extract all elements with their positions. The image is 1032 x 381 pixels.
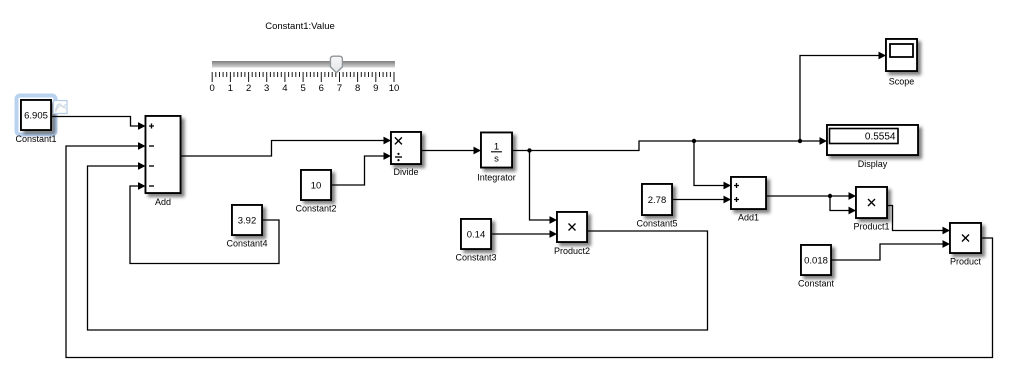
block Constant2 value 10	[295, 170, 336, 214]
svg-text:Product1: Product1	[853, 222, 889, 232]
svg-text:1: 1	[228, 83, 233, 94]
slider scale numbers 0-10	[210, 83, 400, 94]
wire Product output outer feedback loop to Add in2	[66, 142, 993, 357]
wire Product1 output to Product in1	[887, 206, 950, 235]
block Integrator 1/s	[477, 133, 516, 183]
block Add1 (sum + +)	[731, 177, 766, 223]
block Constant4 value 3.92	[226, 205, 267, 249]
wire Constant2 to Divide in2	[331, 152, 391, 185]
junction node at Add1 output	[828, 194, 832, 198]
svg-text:0.018: 0.018	[804, 256, 828, 267]
selection highlight around Constant1	[17, 96, 56, 135]
junction node above Add1	[692, 139, 696, 143]
wire Product2 output inner feedback loop to Add in3	[88, 162, 708, 330]
wire branch junction to Scope	[800, 52, 886, 141]
slider label Constant1:Value	[265, 21, 335, 32]
svg-text:6.905: 6.905	[24, 111, 48, 122]
svg-text:Constant2: Constant2	[295, 204, 336, 214]
block Add (sum + - - -)	[146, 116, 181, 207]
wire Add output to Divide in1	[181, 137, 392, 156]
svg-text:6: 6	[319, 83, 324, 94]
slider scale ticks	[212, 72, 394, 82]
svg-text:Constant5: Constant5	[636, 219, 677, 229]
svg-text:0.14: 0.14	[467, 230, 486, 241]
wire branch junction to Add1 in1	[694, 141, 731, 189]
svg-text:Scope: Scope	[889, 77, 915, 87]
wire branch junction to Product1 in2	[830, 196, 856, 214]
block Constant1 value 6.905	[15, 100, 56, 144]
wire branch junction to Product2 in1	[530, 151, 558, 224]
block Product	[950, 223, 982, 267]
wire Constant1 to Add in1	[51, 117, 146, 130]
block Constant5 value 2.78	[636, 184, 677, 229]
badge signal icon at Constant1 top-right	[54, 101, 68, 114]
svg-text:Constant4: Constant4	[226, 239, 267, 249]
wire Constant5 to Add1 in2	[672, 196, 731, 204]
svg-text:2.78: 2.78	[648, 195, 667, 206]
block Scope	[886, 39, 917, 87]
svg-text:Constant: Constant	[798, 279, 835, 289]
svg-text:Constant1: Constant1	[15, 134, 56, 144]
svg-text:Divide: Divide	[393, 167, 418, 177]
block Product1	[853, 187, 889, 232]
svg-text:3.92: 3.92	[238, 216, 257, 227]
svg-text:0.5554: 0.5554	[865, 131, 896, 142]
svg-text:s: s	[494, 154, 499, 165]
svg-text:4: 4	[282, 83, 287, 94]
block Divide	[391, 132, 421, 177]
svg-text:Integrator: Integrator	[477, 173, 516, 183]
svg-text:1: 1	[494, 142, 499, 153]
wire Constant to Product in2	[831, 240, 950, 260]
svg-text:Add: Add	[155, 197, 171, 207]
svg-text:Product: Product	[950, 257, 982, 267]
block Constant3 value 0.14	[455, 219, 496, 263]
block Display value 0.5554	[827, 125, 918, 169]
svg-text:9: 9	[373, 83, 378, 94]
svg-text:2: 2	[246, 83, 251, 94]
slider track	[212, 61, 395, 68]
svg-text:10: 10	[389, 83, 400, 94]
svg-text:Add1: Add1	[738, 213, 759, 223]
svg-text:8: 8	[355, 83, 360, 94]
svg-text:Constant1:Value: Constant1:Value	[265, 21, 335, 32]
wire Integrator output trunk to Display	[512, 137, 827, 150]
svg-text:Constant3: Constant3	[455, 253, 496, 263]
wire Add1 output to Product1 in1	[766, 192, 856, 200]
junction node at Integrator output	[527, 148, 531, 152]
svg-text:Product2: Product2	[554, 246, 590, 256]
slider thumb at value 6.905	[330, 56, 342, 73]
junction node before Display	[798, 139, 802, 143]
block Product2	[554, 212, 590, 256]
svg-text:5: 5	[300, 83, 305, 94]
block Constant value 0.018	[798, 245, 835, 289]
svg-text:Display: Display	[858, 159, 888, 169]
wire Constant4 feedback loop to Add in4	[130, 182, 279, 263]
svg-text:7: 7	[337, 83, 342, 94]
wire Divide to Integrator	[421, 147, 481, 155]
svg-text:3: 3	[264, 83, 269, 94]
svg-text:10: 10	[311, 181, 322, 192]
svg-text:0: 0	[210, 83, 215, 94]
wire Constant3 to Product2 in2	[491, 230, 557, 238]
